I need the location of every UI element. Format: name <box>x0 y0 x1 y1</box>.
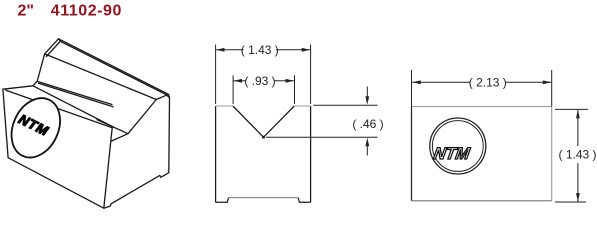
svg-text:NTM: NTM <box>432 144 472 163</box>
svg-text:2": 2" <box>18 3 34 20</box>
svg-text:( .93 ): ( .93 ) <box>244 74 275 88</box>
svg-text:( 1.43 ): ( 1.43 ) <box>558 147 596 161</box>
svg-text:41102-90: 41102-90 <box>51 3 122 20</box>
svg-text:( .46 ): ( .46 ) <box>352 117 383 131</box>
svg-text:( 1.43 ): ( 1.43 ) <box>241 43 279 57</box>
svg-text:( 2.13 ): ( 2.13 ) <box>469 76 507 90</box>
